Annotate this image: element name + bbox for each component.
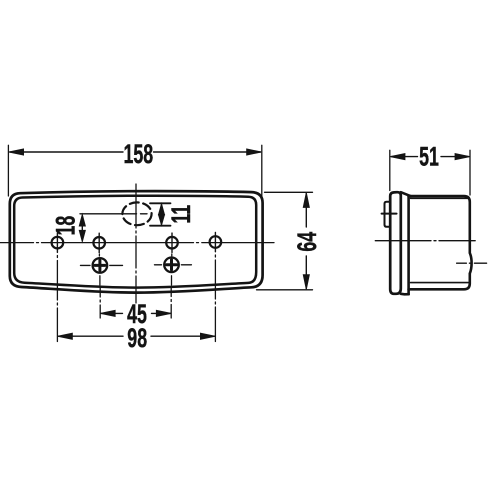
dim 64 arrow down — [303, 275, 309, 290]
dim 45 arrow right — [156, 310, 171, 316]
dim 51 extension line left — [389, 150, 391, 190]
svg-text:158: 158 — [123, 138, 153, 169]
dim 158 arrow left — [9, 149, 24, 155]
dim 98 line — [58, 335, 214, 337]
dim 18 arrow up — [79, 215, 85, 226]
side view lens top slope — [401, 192, 411, 196]
side view horizontal centerline — [375, 240, 475, 242]
extension chain below hole 4 to 98 dim — [214, 255, 216, 342]
dim 11 tick bottom — [150, 225, 171, 227]
dim 98 arrow right — [201, 333, 216, 339]
front view inner contour — [14, 196, 256, 288]
dim 45 arrow left — [101, 310, 116, 316]
side view lens front face — [390, 192, 401, 294]
vertical centerline through dashed hole — [135, 184, 137, 303]
side view lens bottom edge — [401, 292, 409, 295]
dim 64 extension line bottom — [257, 289, 313, 291]
dashed circle hole d11 — [122, 202, 151, 225]
small hole 1 — [52, 233, 64, 252]
screw hole B (cross slot) — [155, 258, 192, 273]
svg-text:64: 64 — [291, 232, 322, 252]
chain between hole 2 and screw hole A — [98, 254, 101, 285]
dim 98 arrow left — [58, 333, 73, 339]
dim 158 line — [10, 151, 261, 153]
side view rear screw centerline — [457, 262, 487, 264]
side view tab screw axis — [382, 213, 397, 215]
side view body outline — [409, 196, 472, 289]
dim 64 extension line top — [265, 191, 313, 193]
extension chain below screw hole B to 45 dim — [170, 287, 172, 318]
dim 64 line — [305, 194, 307, 289]
small hole 3 — [166, 233, 178, 252]
dim 18 arrow line — [81, 216, 83, 240]
dim 11 arrow up — [159, 204, 165, 215]
small hole 2 — [93, 233, 105, 252]
chain between hole 3 and screw hole B — [171, 254, 173, 285]
screw hole A (cross slot) — [81, 258, 123, 273]
dim 158 arrow right — [247, 149, 262, 155]
dim 51 arrow right — [455, 154, 470, 160]
svg-text:18: 18 — [50, 215, 81, 235]
dim 11 tick top — [150, 202, 171, 204]
dim 45 line — [101, 312, 171, 314]
dim 51 line — [392, 156, 469, 158]
dim 11 arrow line — [161, 205, 163, 224]
extension chain below screw hole A to 45 dim — [99, 288, 101, 319]
side view body inner bottom line — [411, 282, 469, 284]
side view mounting tab — [385, 202, 391, 227]
dim 18 leader line to circle center — [80, 213, 147, 215]
svg-text:98: 98 — [127, 322, 147, 353]
extension chain below hole 1 to 98 dim — [56, 256, 58, 342]
dim 18 arrow down — [79, 230, 85, 241]
dim 51 extension line right — [469, 150, 471, 195]
dim 51 arrow left — [390, 154, 405, 160]
front view outer contour — [10, 191, 263, 293]
dim 64 arrow up — [303, 193, 309, 208]
horizontal centerline of front view — [0, 242, 274, 244]
svg-text:11: 11 — [165, 205, 196, 224]
svg-text:51: 51 — [419, 141, 439, 172]
dim 158 extension line right — [261, 145, 263, 196]
side view lens inner edge — [407, 196, 410, 294]
side view body inner top line — [411, 197, 469, 199]
dim 11 arrow down — [159, 215, 165, 226]
dim 158 extension line left — [7, 145, 9, 196]
small hole 4 — [210, 232, 222, 251]
